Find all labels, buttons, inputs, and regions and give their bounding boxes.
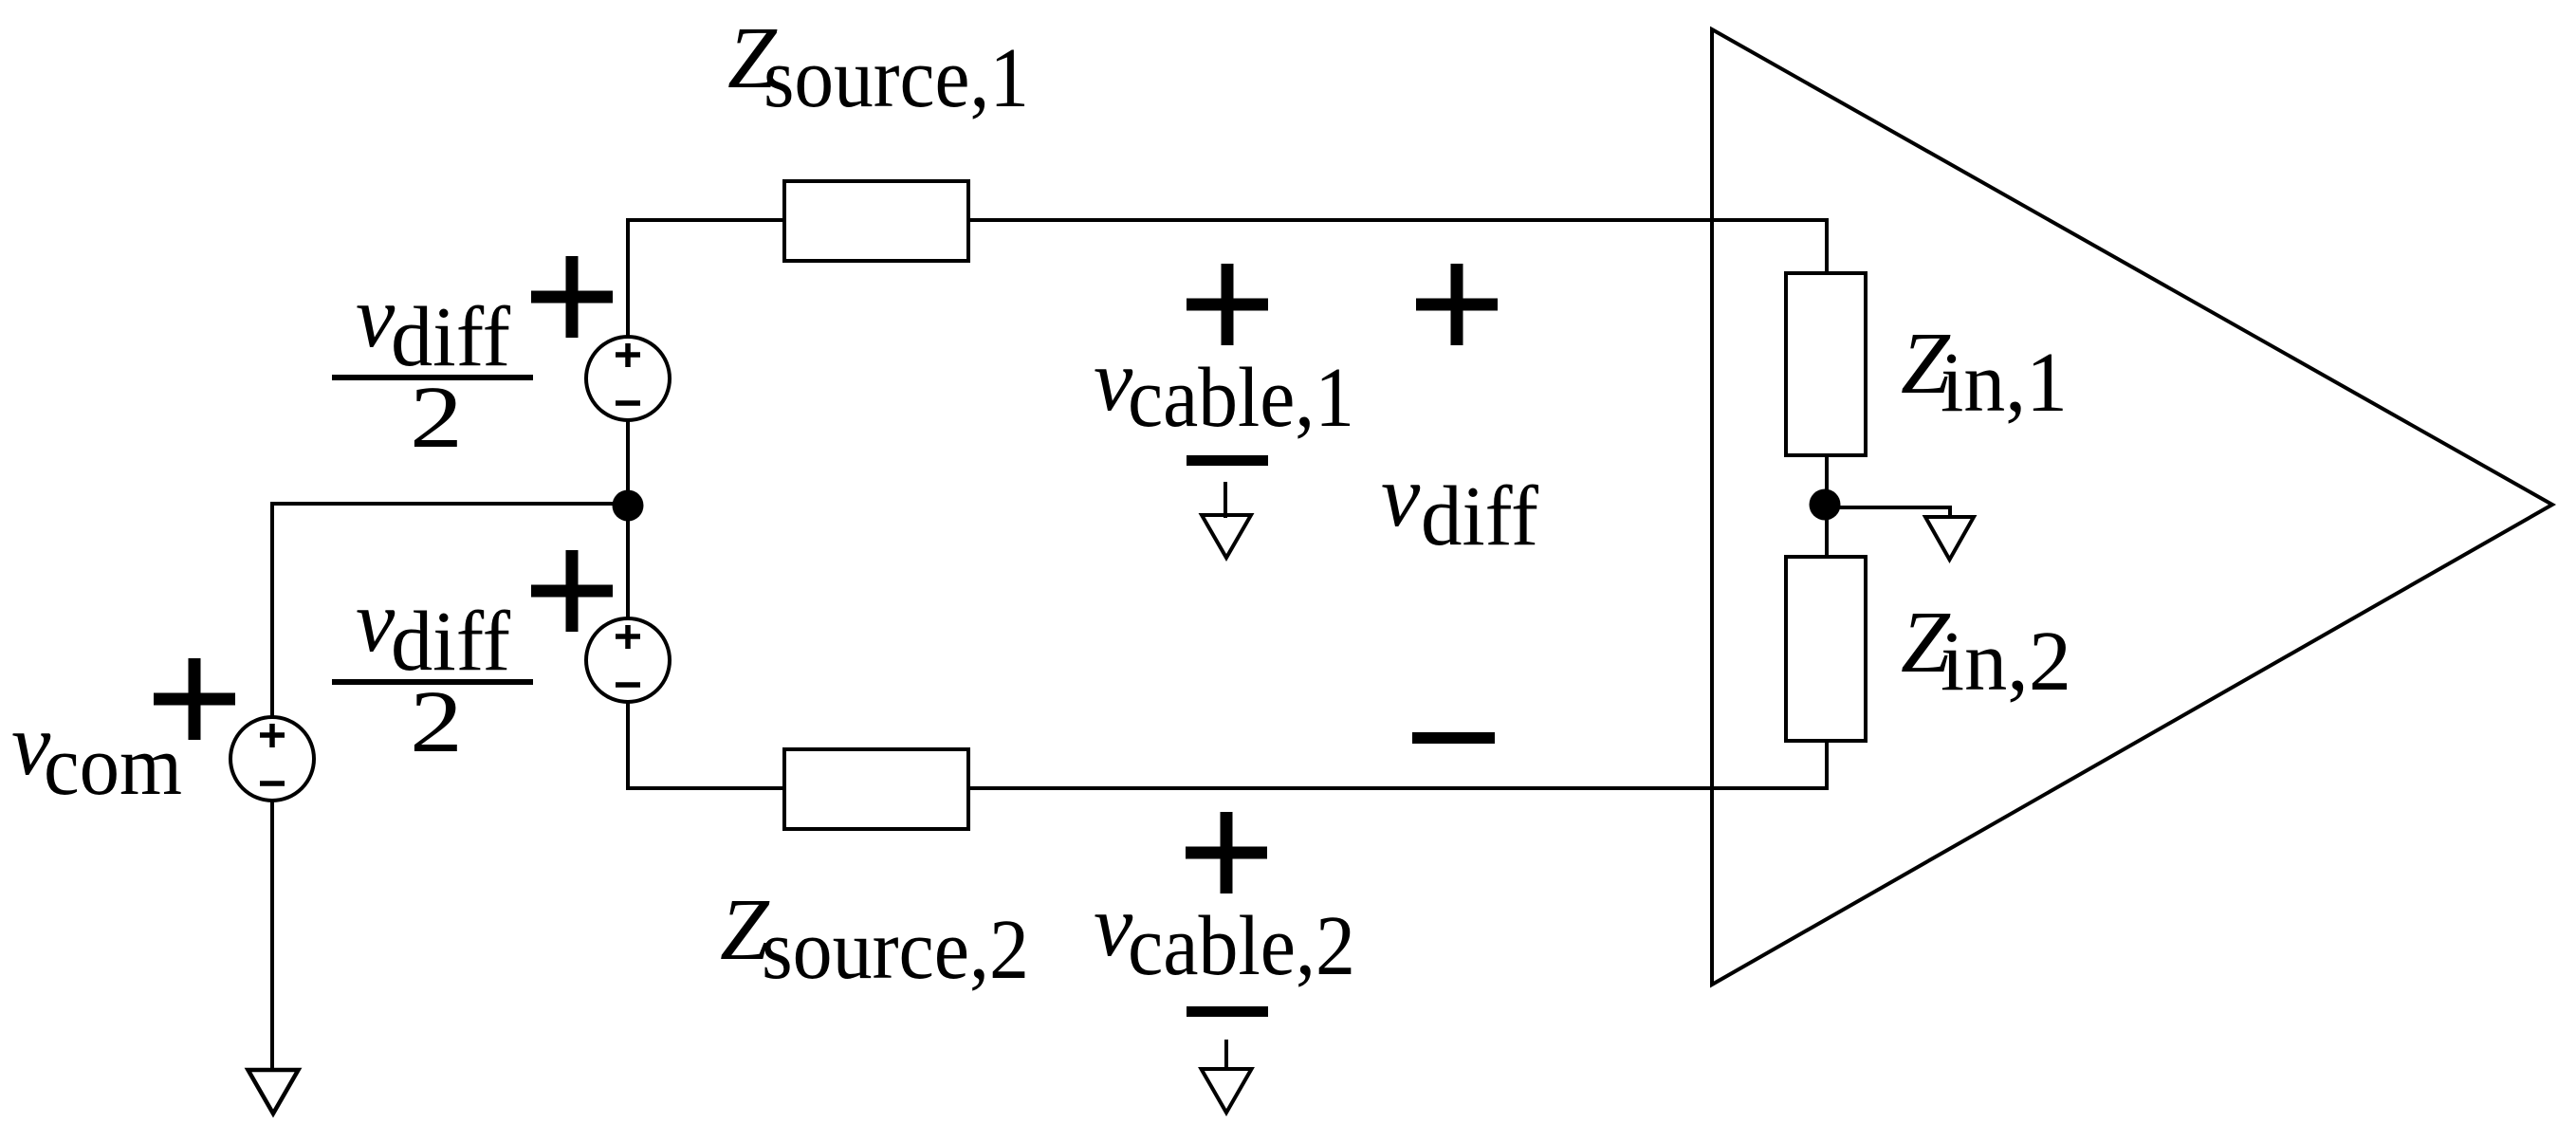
svg-text:in,2: in,2 xyxy=(1941,615,2071,709)
wire node B to internal ground xyxy=(1825,507,1950,517)
voltage source vdiff/2 lower xyxy=(586,618,670,702)
voltage source vcom xyxy=(230,717,314,801)
node B junction dot xyxy=(1810,489,1841,521)
svg-text:2: 2 xyxy=(410,369,463,467)
resistor Z_source,1 xyxy=(784,181,968,261)
ground below vcom xyxy=(248,1070,299,1114)
ground below vcable1 bar xyxy=(1224,482,1227,518)
wire vertical upper source to top wire xyxy=(626,218,630,339)
svg-text:com: com xyxy=(44,719,182,813)
node A junction dot xyxy=(613,490,644,522)
minus bar of vcable2 xyxy=(1187,1006,1268,1017)
resistor Z_in,2 xyxy=(1786,557,1866,741)
plus sign of vcom source xyxy=(154,658,235,740)
plus sign of upper vdiff/2 source xyxy=(531,256,613,338)
wire lower source bottom down to bottom rail xyxy=(626,700,630,790)
wire left vertical down to vcom source xyxy=(270,502,274,719)
wire upper source bottom to node A xyxy=(626,418,630,620)
wire stub Zin1 to Zin2 through node B xyxy=(1825,453,1829,559)
svg-text:in,1: in,1 xyxy=(1941,336,2068,430)
wire stub Zin2 to bottom rail xyxy=(1825,739,1829,790)
plus sign of vdiff at amplifier input xyxy=(1416,264,1498,345)
svg-text:v: v xyxy=(356,573,396,671)
svg-text:cable,2: cable,2 xyxy=(1128,899,1355,993)
svg-text:v: v xyxy=(1381,448,1421,545)
svg-text:v: v xyxy=(356,268,396,366)
op-amp amplifier triangle xyxy=(1712,29,2552,985)
svg-text:cable,1: cable,1 xyxy=(1128,351,1354,445)
resistor Z_in,1 xyxy=(1786,273,1866,455)
wire top from upper source column to Zin1 stub xyxy=(628,218,1827,222)
voltage source vdiff/2 upper xyxy=(586,337,670,420)
wire stub top wire into Zin1 xyxy=(1825,218,1829,275)
plus sign of lower vdiff/2 source xyxy=(531,550,613,632)
minus bar of vcable1 xyxy=(1187,455,1268,466)
ground below vcable2 bar xyxy=(1224,1040,1228,1070)
svg-text:2: 2 xyxy=(410,673,463,771)
wire bottom rail to Zin2 stub xyxy=(628,786,1827,790)
svg-text:source,1: source,1 xyxy=(764,31,1029,125)
wire vcom source to ground xyxy=(270,799,274,1070)
plus sign of vcable2 xyxy=(1186,812,1267,893)
ground at node B xyxy=(1925,517,1974,560)
svg-text:diff: diff xyxy=(1421,470,1538,563)
wire node A to left xyxy=(272,502,630,506)
resistor Z_source,2 xyxy=(784,749,968,829)
svg-text:source,2: source,2 xyxy=(762,903,1029,997)
plus sign of vcable1 xyxy=(1187,264,1268,345)
minus sign of vdiff at amplifier input xyxy=(1412,732,1495,744)
